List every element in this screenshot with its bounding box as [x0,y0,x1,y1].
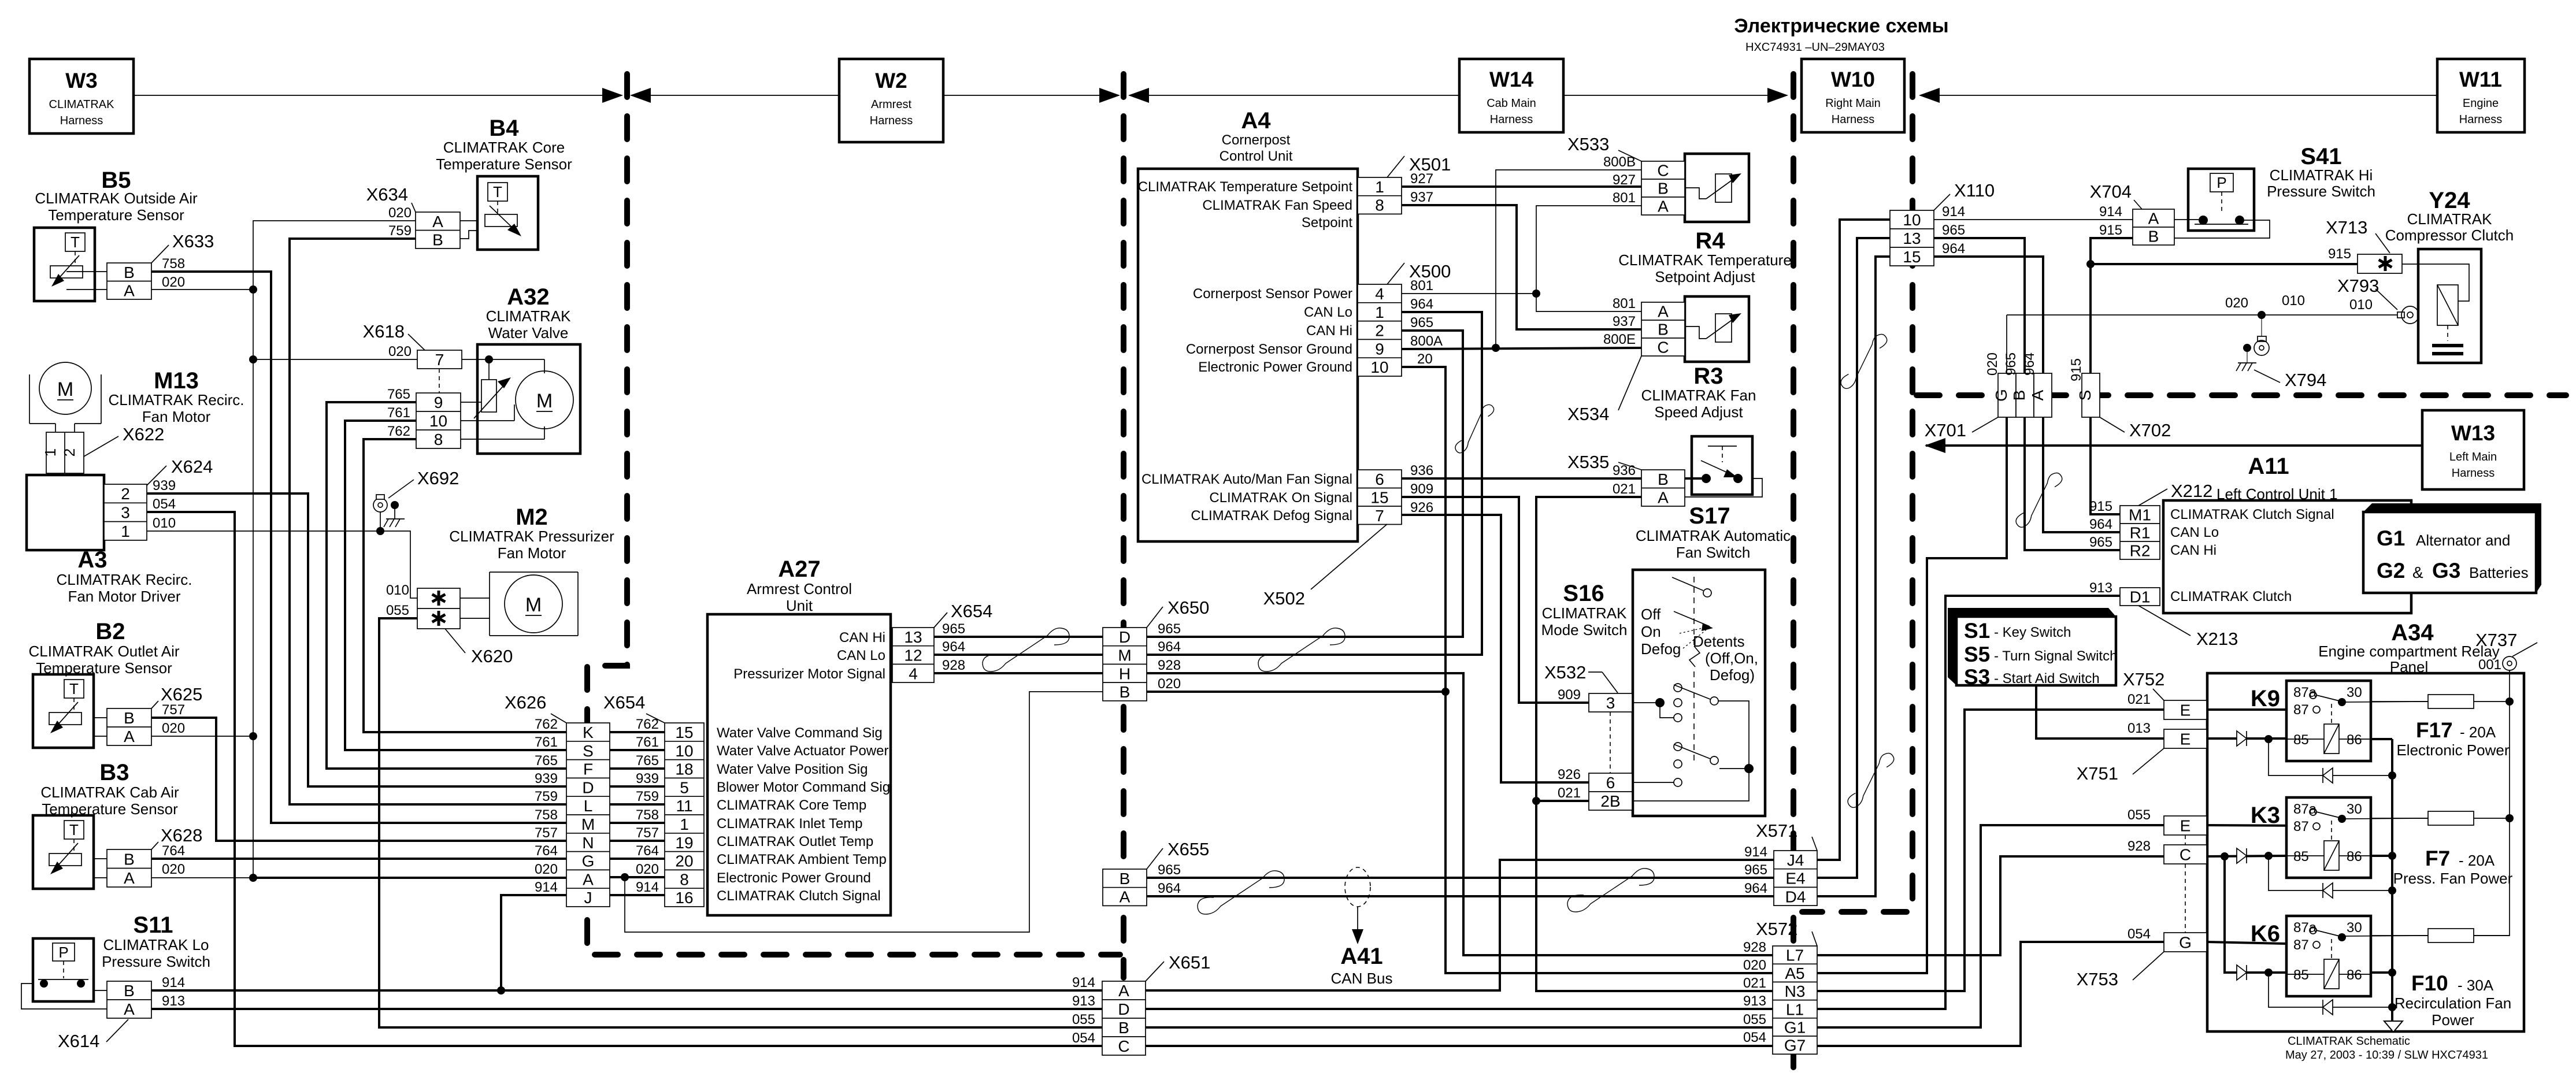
wire 928 C to K3 coil [2207,852,2286,860]
label wire 913 A11 [2089,580,2112,596]
svg-text:- 30A: - 30A [2458,977,2494,994]
connector X634 [416,212,460,248]
wire X626 to X654 row [610,749,665,751]
label A4 pin Fan Speed [1202,198,1352,213]
svg-text:- 20A: - 20A [2459,852,2495,869]
svg-text:A: A [124,1000,135,1018]
svg-text:055: 055 [1072,1012,1095,1027]
svg-text:8: 8 [1375,196,1384,214]
label wire 914 X571 [1744,844,1767,860]
svg-text:CLIMATRAK: CLIMATRAK [486,307,572,325]
wire A34 right bus [2474,670,2514,936]
wire net 801 to R3A [1536,294,1641,311]
svg-text:30: 30 [2347,801,2362,817]
svg-text:758: 758 [162,256,185,272]
svg-text:B4: B4 [489,116,519,141]
svg-text:762: 762 [636,717,659,732]
wire K6-30 to fuse F10 [2342,936,2428,936]
harness boundary W3/W2 dashed line [587,74,1120,955]
svg-text:May 27, 2003 - 10:39 / SLW: May 27, 2003 - 10:39 / SLW HXC74931 [2285,1049,2488,1062]
sensor B5 CLIMATRAK Outside Air Temperature Sensor symbol [34,228,95,301]
wire net 020 vertical bus [253,221,416,877]
svg-text:CLIMATRAK Clutch Signal: CLIMATRAK Clutch Signal [717,888,881,904]
junction 800A [1492,344,1500,352]
svg-text:F7: F7 [2425,847,2450,870]
svg-text:X702: X702 [2129,420,2171,440]
label wire 020 X628 [162,862,185,877]
harness box W3 [29,59,134,133]
svg-text:8: 8 [434,431,443,448]
label X620 [445,629,513,666]
wire net 965 X571E4 to X110-13 [1817,238,1890,878]
svg-text:15: 15 [675,723,693,741]
svg-text:914: 914 [1942,204,1965,220]
connector X572 [1773,946,1817,1055]
svg-text:X533: X533 [1567,134,1609,154]
node A41 CAN Bus ellipse [1345,867,1370,944]
label A34 [2318,620,2500,676]
wire net 758 X633B to X626M [151,272,566,823]
wire net 914 X110 to X704A [1934,219,2133,220]
label wire 761 X618 [387,405,410,421]
label S41 [2267,144,2375,200]
svg-text:X651: X651 [1169,952,1210,973]
wire net 915 to X713 [2091,263,2358,265]
wire 013 X751E to K9 coil [2207,735,2286,743]
svg-text:Power: Power [2432,1011,2474,1029]
svg-text:936: 936 [1613,463,1636,478]
svg-text:Temperature Sensor: Temperature Sensor [42,800,178,818]
svg-text:W10: W10 [1831,68,1875,91]
wire 021 X752E into K9-87 [2207,708,2312,711]
svg-text:15: 15 [1370,488,1388,506]
svg-text:F17: F17 [2416,718,2453,742]
svg-text:765: 765 [387,387,410,402]
svg-text:10: 10 [429,412,447,430]
label wire 020 X618 [388,344,412,359]
svg-text:CLIMATRAK Clutch Signal: CLIMATRAK Clutch Signal [2170,507,2334,522]
svg-text:86: 86 [2347,849,2362,864]
label K6 [2251,921,2280,947]
svg-text:CLIMATRAK: CLIMATRAK [2407,210,2493,228]
svg-text:K9: K9 [2251,686,2280,711]
label X534 [1567,356,1641,424]
wire X626 to X654 row [610,767,665,770]
svg-text:Temperature Sensor: Temperature Sensor [436,155,572,173]
svg-text:B: B [1658,470,1669,488]
svg-text:E: E [2180,702,2191,719]
label wire 758 [162,256,185,272]
wire net 928 X572L7 to A34 C [1817,856,2164,955]
svg-text:F10: F10 [2411,971,2448,995]
wire 758 B5-B [66,271,107,272]
svg-text:964: 964 [2022,352,2037,376]
svg-text:X502: X502 [1263,588,1305,608]
switch S16 bank1 contacts [1632,684,1718,722]
fuse F17 [2371,695,2510,708]
svg-text:G1: G1 [1784,1018,1806,1036]
switch S41 symbol [2174,169,2270,238]
label wire 055 X572 [1743,1012,1766,1027]
svg-text:X704: X704 [2090,181,2132,202]
svg-text:939: 939 [153,478,176,493]
label wire 964 X571 [1744,881,1767,896]
sensor B4 CLIMATRAK Core Temperature Sensor symbol [477,176,538,250]
svg-text:A11: A11 [2248,454,2289,479]
potentiometer R4 [1685,173,1741,202]
label M13 [109,368,244,425]
svg-text:757: 757 [162,702,185,718]
svg-text:CLIMATRAK: CLIMATRAK [49,98,115,111]
label wire 964 X655 [1158,881,1181,896]
wire net 964 X650M right [1147,312,1482,655]
svg-text:X620: X620 [471,646,513,666]
label X753 [2077,952,2164,989]
connector X753 dashed link [2185,835,2186,933]
svg-text:CLIMATRAK Defog Signal: CLIMATRAK Defog Signal [1191,508,1352,524]
label wire 021 X752 [2127,692,2151,707]
junction 020 X626A-X654 [621,873,629,881]
label wire 964 X650 [1158,639,1181,655]
svg-text:A: A [124,281,135,299]
label wire 926 X502 [1410,500,1433,515]
svg-text:021: 021 [1613,481,1636,497]
svg-text:Left Main: Left Main [2449,451,2497,463]
wire X626 to X654 row [610,894,665,896]
svg-text:X737: X737 [2475,630,2517,650]
svg-text:A5: A5 [1785,964,1804,982]
label F17 [2396,718,2509,759]
svg-text:B: B [1658,180,1669,198]
svg-text:S16: S16 [1563,581,1604,606]
svg-text:Blower Motor Command Sig: Blower Motor Command Sig [717,780,890,795]
svg-text:Harness: Harness [60,114,103,127]
connector X654 top pins 13 12 4 [892,628,934,682]
svg-text:C: C [1657,162,1669,180]
label B3 [40,760,179,818]
wire net 914 X651A to X571J4 [1146,860,1774,990]
label S17 [1636,503,1791,561]
svg-text:764: 764 [636,843,659,859]
wire net 020 X628A to X626A [151,874,566,882]
wire W3 to boundary [134,88,623,103]
svg-text:86: 86 [2347,732,2362,748]
svg-text:915: 915 [2328,246,2351,262]
wire net 055 X651B to X572G1 [1146,1026,1774,1029]
svg-text:CLIMATRAK Recirc.: CLIMATRAK Recirc. [57,571,192,588]
wire 020 X618-7 to valve [462,355,544,380]
svg-text:8: 8 [680,870,689,888]
svg-text:913: 913 [1743,993,1766,1009]
svg-text:13: 13 [1903,229,1921,247]
svg-text:X614: X614 [58,1031,99,1051]
svg-text:759: 759 [388,223,412,239]
label X701 [1925,417,1998,440]
label wire 913 X651 [1072,993,1095,1009]
wire X626 to X654 row [610,803,665,806]
svg-text:X626: X626 [505,692,546,713]
wire net 021 X535A to X572N3 [1536,497,1774,991]
svg-text:913: 913 [1072,993,1095,1009]
label wire 055 X620 [386,603,409,618]
label X634 [366,184,416,212]
svg-text:W14: W14 [1489,68,1534,91]
connector X702 S [2076,373,2100,417]
svg-text:A: A [1658,198,1669,216]
connector X625 [107,708,151,745]
connector X651 [1102,981,1146,1055]
svg-text:964: 964 [1744,881,1767,896]
svg-text:800B: 800B [1603,154,1636,170]
component S1 S5 S3 box [1948,608,2117,689]
wire net 928 X650H to X572L7 [1147,673,1774,955]
svg-text:CLIMATRAK Temperature: CLIMATRAK Temperature [1618,251,1792,269]
svg-text:Electronic Power Ground: Electronic Power Ground [1198,359,1352,375]
svg-text:C: C [1657,339,1669,357]
label X654 left [603,692,665,723]
svg-text:801: 801 [1613,190,1636,206]
svg-text:T: T [69,821,79,838]
wire K3-86 to bus [2371,855,2392,857]
svg-text:CLIMATRAK: CLIMATRAK [1542,604,1628,622]
fuse F10 [2371,929,2510,942]
label wire 928 X654t [942,658,965,673]
label wire 054 X624 [153,496,176,512]
label wire 927 X533 [1613,172,1636,188]
label wire 939 X654 row [636,771,659,786]
wire net 801 to X533A [1536,206,1641,294]
label wire 020 rotated [1985,352,2000,376]
svg-text:CLIMATRAK On Signal: CLIMATRAK On Signal [1209,490,1352,506]
svg-text:S: S [583,742,594,760]
svg-text:19: 19 [675,834,693,852]
svg-text:B: B [124,982,135,1000]
svg-text:Batteries: Batteries [2469,564,2529,581]
label wire 020 X634 [388,205,412,221]
diode K9 freewheel [2323,768,2333,783]
wire net 909 X502-15 to X532-3 [1402,497,1589,703]
svg-text:2: 2 [61,448,78,457]
label R4 [1618,228,1792,285]
svg-text:761: 761 [387,405,410,421]
label wire 765 X626 row [535,753,558,769]
label wire 020 X633 [162,274,185,290]
connector X753 E 055 [2164,816,2207,835]
label wire 759 X634 [388,223,412,239]
svg-text:18: 18 [675,760,693,778]
svg-text:927: 927 [1613,172,1636,188]
svg-text:X654: X654 [603,692,645,713]
svg-text:020: 020 [1743,958,1766,973]
junction 020 at X618-7 [249,355,417,363]
svg-text:X692: X692 [417,468,459,488]
switch S17 contacts [1701,446,1743,483]
wire net 020 X701G riser [2006,315,2007,373]
label wire 915 rotated [2069,358,2084,381]
label wire 758 X654 row [636,807,659,823]
wire net 927 X501-1 to X533B [1402,185,1641,188]
svg-text:758: 758 [636,807,659,823]
wire net 926 X502-7 to X532-6 [1402,515,1589,782]
svg-text:CLIMATRAK Temperature Setpoint: CLIMATRAK Temperature Setpoint [1138,179,1353,195]
label A32 [486,284,572,342]
wire net 021 X572N3 to X752E [1817,710,2164,991]
svg-text:800E: 800E [1603,332,1636,347]
squiggle on A11 risers [2004,471,2074,529]
label A4 [1220,108,1293,164]
svg-text:T: T [69,680,79,697]
svg-text:S5: S5 [1964,643,1990,666]
svg-text:965: 965 [2003,352,2019,376]
label wire 914 X704 [2099,204,2122,220]
wire X626 to X654 row [610,785,665,788]
svg-text:X622: X622 [123,424,164,444]
label K3 [2251,803,2280,828]
svg-text:Cornerpost: Cornerpost [1222,132,1291,148]
svg-text:CLIMATRAK Core: CLIMATRAK Core [443,139,565,156]
label X651 [1146,952,1210,981]
label wire 010 horiz [2282,293,2305,309]
label wire 761 X654 row [636,734,659,750]
svg-text:928: 928 [1158,658,1181,673]
label X650 [1147,598,1209,628]
svg-text:R4: R4 [1695,228,1725,254]
label wire 909 X502 [1410,481,1433,497]
svg-text:020: 020 [1985,352,2000,376]
wire net 054 X651C to X572G7 [1146,1045,1774,1047]
svg-text:Recirculation Fan: Recirculation Fan [2395,994,2511,1012]
label wire 764 [162,843,185,859]
svg-text:X624: X624 [171,457,213,477]
connector X532 pins 6 2B [1589,773,1632,810]
connector X751 E [2164,729,2207,748]
wire net 965 X110-13 to X701B [1934,238,2025,373]
svg-text:914: 914 [636,880,659,895]
ring terminal X793 [2397,306,2419,324]
label wire 762 X626 row [535,717,558,732]
svg-text:X633: X633 [172,231,214,251]
svg-text:B: B [1120,870,1131,888]
label A27 pin CAN Lo [837,648,885,663]
svg-text:M2: M2 [516,504,548,530]
label wire 965 X571 [1744,862,1767,878]
svg-text:E: E [2180,817,2191,835]
svg-text:Cornerpost Sensor Power: Cornerpost Sensor Power [1193,286,1352,302]
svg-text:87a: 87a [2293,801,2317,817]
svg-text:P: P [2217,174,2226,191]
label wire 055 X753 [2127,807,2151,823]
svg-text:965: 965 [1410,315,1433,331]
svg-text:86: 86 [2347,967,2362,983]
label wire 964 X654t [942,639,965,655]
svg-text:1: 1 [42,448,59,457]
label wire 010 X620 [386,582,409,598]
subtitle HXC74931 -UN-29MAY03 [1745,41,1885,54]
svg-text:939: 939 [535,771,558,786]
connector X614 [107,981,151,1018]
svg-text:F: F [583,760,593,778]
svg-text:010: 010 [2282,293,2305,309]
harness box W14 [1459,59,1563,132]
valve actuator resistor A32 [474,377,511,418]
wire X626 to X654 row [610,840,665,842]
wire net 764 X628B to X626G [151,858,566,860]
junction 020 at X633A [151,285,257,294]
label X794 [2254,370,2326,390]
wire net 020 X500-10 to X572A5 [1402,367,1774,973]
svg-text:Y24: Y24 [2429,188,2470,213]
svg-text:20: 20 [675,852,693,870]
svg-text:Armrest: Armrest [871,98,911,111]
svg-text:Defog): Defog) [1710,666,1755,684]
component S16 box [1633,570,1765,816]
svg-text:W3: W3 [65,69,98,92]
diode K6 input [2237,965,2247,980]
switch S16 axis dashed [1693,577,1695,763]
label A4 pin Defog Signal [1191,508,1352,524]
svg-text:J: J [584,889,592,907]
svg-text:Speed Adjust: Speed Adjust [1654,403,1743,421]
svg-text:Harness: Harness [1490,113,1533,126]
label A4 pin Cornerpost Sensor Ground [1186,342,1352,357]
svg-text:762: 762 [387,424,410,439]
label wire 013 X751 [2127,721,2151,736]
wire boundary to W14 [1128,88,1459,103]
svg-text:X572: X572 [1756,919,1797,939]
svg-text:915: 915 [2089,499,2112,514]
svg-text:CLIMATRAK Auto/Man Fan Signal: CLIMATRAK Auto/Man Fan Signal [1141,472,1352,487]
svg-text:Cab Main: Cab Main [1487,97,1536,110]
connector X532 pin3 [1589,693,1632,712]
potentiometer R3 [1685,313,1741,342]
svg-text:13: 13 [904,628,922,646]
wire X620 to motor [460,598,490,618]
component S17 box [1692,436,1752,495]
wire net 914 X614B to X651A [151,986,1102,994]
svg-text:X213: X213 [2196,629,2238,649]
label A11 pin CAN Hi [2170,543,2217,558]
svg-text:4: 4 [909,665,918,682]
svg-text:Armrest Control: Armrest Control [747,580,852,598]
svg-text:CLIMATRAK Outlet Air: CLIMATRAK Outlet Air [28,643,179,660]
svg-text:B3: B3 [99,760,129,785]
wire net 914 branch to X626J [501,895,566,990]
junction 010 X794 [2258,311,2266,319]
svg-text:G7: G7 [1784,1037,1806,1055]
svg-text:765: 765 [636,753,659,769]
svg-text:CLIMATRAK Pressurizer: CLIMATRAK Pressurizer [449,528,614,545]
svg-text:10: 10 [1903,211,1921,229]
label 001 [2478,657,2501,673]
svg-text:X628: X628 [161,825,202,845]
label wire 021 X532 [1558,785,1581,801]
svg-text:M: M [57,378,73,400]
wire net 965 X654-13 to X650D [934,636,1103,638]
terminal 001 X737 [2503,656,2516,670]
label wire 964 X110 [1942,241,1965,257]
component A34 box [2207,673,2524,1031]
svg-text:G: G [2179,934,2192,952]
svg-text:020: 020 [636,862,659,877]
wire X618-9 to resistor [461,402,481,403]
svg-text:Alternator and: Alternator and [2416,532,2510,549]
svg-text:Water Valve: Water Valve [488,324,569,342]
label X655 [1147,839,1209,869]
svg-text:800A: 800A [1410,333,1443,349]
component A27 Armrest Control Unit box [707,614,891,915]
svg-text:Electronic Power Ground: Electronic Power Ground [717,870,871,886]
svg-text:CLIMATRAK Recirc.: CLIMATRAK Recirc. [109,391,244,409]
